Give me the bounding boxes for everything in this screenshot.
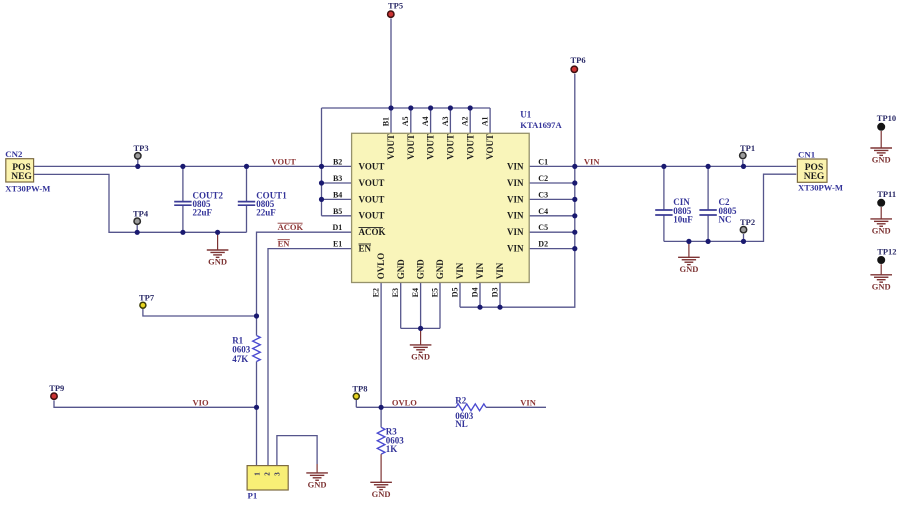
wire U1 top pin stub A1	[489, 108, 491, 133]
wire R1 bottom to P1 pin1 (VIO)	[256, 362, 258, 466]
junction GND rail	[215, 230, 220, 235]
svg-text:KTA1697A: KTA1697A	[520, 120, 562, 130]
wire U1.D3 stub	[499, 283, 501, 308]
junction TP2	[741, 239, 746, 244]
testpoint TP10	[877, 113, 896, 130]
svg-text:TP8: TP8	[352, 384, 367, 394]
ground (TP11)	[870, 207, 892, 236]
svg-text:E4: E4	[411, 288, 420, 297]
junction TP4	[135, 230, 140, 235]
wire ACOK net U1.D1 to R1 top	[257, 232, 352, 335]
svg-text:C2: C2	[538, 174, 548, 183]
svg-text:VOUT: VOUT	[359, 161, 385, 171]
wire TP6 stem + right VIN vertical bus	[460, 74, 575, 307]
svg-text:A5: A5	[401, 117, 410, 127]
svg-text:C1: C1	[538, 157, 548, 166]
junction OVLO/R3	[379, 405, 384, 410]
svg-text:GND: GND	[872, 281, 891, 291]
wire TP4 stem	[136, 225, 138, 232]
svg-text:TP10: TP10	[877, 113, 896, 123]
svg-text:TP9: TP9	[49, 383, 64, 393]
svg-text:P1: P1	[248, 491, 258, 501]
resistor R1	[253, 336, 261, 362]
junction CIN top	[661, 164, 666, 169]
svg-text:OVLO: OVLO	[376, 253, 386, 280]
svg-text:VIN: VIN	[475, 262, 485, 279]
junction A3	[448, 105, 453, 110]
svg-text:NC: NC	[719, 214, 732, 224]
wire U1 right pin stub C4	[529, 215, 575, 217]
svg-text:R2: R2	[455, 396, 466, 406]
svg-text:CN2: CN2	[5, 149, 23, 159]
testpoint TP5	[388, 1, 404, 18]
wire U1 top pin stub A4	[430, 108, 432, 133]
wire U1.E2 to R3 (OVLO)	[380, 283, 382, 428]
svg-text:VOUT: VOUT	[465, 134, 475, 160]
junction A4	[428, 105, 433, 110]
capacitor CIN	[655, 166, 693, 241]
testpoint TP8	[352, 384, 367, 400]
svg-text:E3: E3	[391, 288, 400, 297]
svg-text:B4: B4	[333, 190, 342, 199]
junction C1/VIN	[572, 164, 577, 169]
resistor R2	[456, 404, 486, 411]
svg-text:E5: E5	[430, 288, 439, 297]
capacitor COUT2	[174, 166, 223, 232]
svg-text:TP2: TP2	[740, 217, 755, 227]
svg-text:2: 2	[263, 472, 271, 476]
wire TP1 stem	[742, 160, 744, 167]
junction B4	[319, 197, 324, 202]
junction B2/VOUT	[319, 164, 324, 169]
wire TP5 stem	[390, 19, 392, 109]
wire U1 right pin stub D2	[529, 248, 575, 250]
wire U1.B5 stub	[322, 215, 352, 217]
testpoint TP11	[877, 189, 896, 206]
svg-text:NEG: NEG	[11, 172, 32, 182]
wire TP7 to ACOK	[143, 309, 257, 316]
resistor R3	[377, 427, 385, 454]
ground (CIN rail)	[678, 241, 700, 274]
wire EN net U1.E1 to P1 pin2	[268, 249, 352, 466]
wire U1.E4 stub	[420, 283, 422, 329]
svg-text:C5: C5	[538, 223, 548, 232]
wire VIN rail U1.C1 to CN1.POS	[529, 165, 796, 167]
svg-text:TP5: TP5	[388, 1, 403, 11]
svg-text:VIN: VIN	[507, 211, 524, 221]
junction C5	[572, 230, 577, 235]
svg-text:VOUT: VOUT	[446, 134, 456, 160]
svg-text:B5: B5	[333, 207, 342, 216]
junction COUT1 top	[244, 164, 249, 169]
testpoint TP1	[740, 143, 756, 159]
testpoint TP3	[134, 143, 149, 159]
wire U1.E3 stub	[400, 283, 402, 329]
svg-text:VIN: VIN	[507, 227, 524, 237]
ground (R3)	[370, 454, 392, 499]
junction CIN GND	[686, 239, 691, 244]
svg-text:A3: A3	[441, 117, 450, 127]
svg-text:XT30PW-M: XT30PW-M	[5, 183, 50, 193]
IC U1 KTA1697A body	[352, 133, 530, 282]
svg-text:VIN: VIN	[520, 397, 536, 407]
wire TP8 stem	[355, 400, 357, 407]
U1 left pin name VOUT (pin B4)	[359, 194, 385, 204]
svg-text:B1: B1	[381, 117, 390, 126]
svg-text:TP6: TP6	[571, 55, 586, 65]
svg-text:VOUT: VOUT	[359, 178, 385, 188]
wire U1.B3 stub	[322, 182, 352, 184]
wire U1 right pin stub C5	[529, 231, 575, 233]
wire TP9 VIO rail	[54, 400, 257, 407]
svg-text:U1: U1	[520, 110, 531, 120]
testpoint TP6	[571, 55, 586, 72]
R2 labels	[455, 396, 474, 429]
svg-text:GND: GND	[679, 264, 698, 274]
wire U1 right pin stub C2	[529, 182, 575, 184]
U1 left pin name ACOK (pin D1)	[359, 227, 386, 237]
svg-text:XT30PW-M: XT30PW-M	[798, 183, 843, 193]
svg-text:VIN: VIN	[507, 194, 524, 204]
svg-text:1: 1	[253, 472, 261, 476]
wire CN2.NEG to GND rail	[34, 174, 247, 232]
svg-text:GND: GND	[872, 155, 891, 165]
svg-text:ACOK: ACOK	[359, 227, 386, 237]
R1 labels	[232, 336, 251, 364]
junction D2	[572, 246, 577, 251]
svg-text:GND: GND	[435, 259, 445, 280]
ground (TP10)	[870, 131, 892, 165]
svg-text:GND: GND	[872, 226, 891, 236]
U1 left pin name VOUT (pin B2)	[359, 161, 385, 171]
svg-text:C3: C3	[538, 190, 548, 199]
svg-text:D1: D1	[333, 223, 343, 232]
junction VIO/R1	[254, 405, 259, 410]
wire OVLO net TP8 to R2	[356, 406, 456, 408]
svg-text:D4: D4	[470, 288, 479, 298]
testpoint TP12	[877, 246, 896, 263]
wire E3-E5 GND rail	[401, 327, 440, 329]
svg-text:VOUT: VOUT	[406, 134, 416, 160]
junction D4	[477, 305, 482, 310]
svg-text:GND: GND	[372, 489, 391, 499]
svg-text:TP12: TP12	[877, 246, 896, 256]
svg-text:CN1: CN1	[798, 149, 815, 159]
svg-text:OVLO: OVLO	[392, 397, 417, 407]
svg-text:VOUT: VOUT	[359, 194, 385, 204]
capacitor COUT1	[238, 166, 287, 232]
wire U1.B4 stub	[322, 198, 352, 200]
svg-text:10uF: 10uF	[673, 214, 693, 224]
svg-text:D2: D2	[538, 240, 548, 249]
junction A5	[408, 105, 413, 110]
wire U1.E5 stub	[439, 283, 441, 329]
junction COUT2 top	[180, 164, 185, 169]
wire TP2 stem	[743, 234, 745, 241]
junction E4/GND	[418, 326, 423, 331]
svg-text:47K: 47K	[232, 354, 248, 364]
svg-text:3: 3	[274, 472, 282, 476]
junction C2cap bottom	[706, 239, 711, 244]
svg-text:TP1: TP1	[740, 143, 755, 153]
svg-text:VIN: VIN	[455, 262, 465, 279]
svg-text:VOUT: VOUT	[426, 134, 436, 160]
junction B3	[319, 180, 324, 185]
svg-text:TP4: TP4	[133, 209, 149, 219]
ground (TP12)	[870, 264, 892, 291]
testpoint TP2	[740, 217, 755, 233]
svg-text:A1: A1	[481, 117, 490, 127]
testpoint TP7	[139, 293, 155, 309]
svg-text:VIN: VIN	[584, 156, 600, 166]
svg-text:VOUT: VOUT	[386, 134, 396, 160]
junction C4	[572, 213, 577, 218]
connector CN1 body	[797, 159, 827, 182]
svg-text:E1: E1	[333, 240, 342, 249]
junction C2	[572, 180, 577, 185]
wire U1.D4 stub	[479, 283, 481, 308]
wire U1 top pin stub B1	[390, 108, 392, 133]
svg-text:VIN: VIN	[507, 178, 524, 188]
svg-text:VIN: VIN	[495, 262, 505, 279]
wire R2 to VIN label	[486, 406, 546, 408]
svg-text:NL: NL	[455, 419, 468, 429]
svg-text:EN: EN	[359, 244, 372, 254]
svg-text:C4: C4	[538, 207, 548, 216]
junction C3	[572, 197, 577, 202]
U1 left pin name EN (pin E1)	[359, 244, 372, 254]
svg-text:A4: A4	[421, 117, 430, 127]
wire U1 right pin stub C3	[529, 198, 575, 200]
wire B-pins vertical bus	[321, 108, 323, 216]
ground (COUT rail)	[207, 232, 229, 266]
svg-text:GND: GND	[208, 257, 227, 267]
net label ACOK	[278, 222, 304, 232]
svg-text:NEG: NEG	[804, 172, 825, 182]
svg-text:22uF: 22uF	[256, 207, 276, 217]
junction TP7/ACOK	[254, 313, 259, 318]
U1 left pin name VOUT (pin B5)	[359, 211, 385, 221]
svg-text:GND: GND	[416, 259, 426, 280]
wire U1 top pin stub A5	[410, 108, 412, 133]
junction C2cap top	[706, 164, 711, 169]
wire TP3 stem	[137, 160, 139, 167]
svg-text:D3: D3	[490, 288, 499, 298]
capacitor C2	[699, 166, 737, 241]
svg-text:GND: GND	[411, 352, 430, 362]
svg-text:VIN: VIN	[507, 161, 524, 171]
net label EN	[278, 239, 291, 249]
svg-text:A2: A2	[461, 117, 470, 127]
U1 left pin name VOUT (pin B3)	[359, 178, 385, 188]
svg-text:TP7: TP7	[139, 293, 155, 303]
svg-text:TP3: TP3	[134, 143, 149, 153]
wire VOUT rail CN2.POS to U1.B2	[34, 165, 352, 167]
testpoint TP4	[133, 209, 149, 225]
wire U1 top pin stub A3	[449, 108, 451, 133]
svg-text:VOUT: VOUT	[485, 134, 495, 160]
svg-text:VIN: VIN	[507, 244, 524, 254]
junction D3	[497, 305, 502, 310]
svg-text:1K: 1K	[386, 444, 398, 454]
wire top VOUT rail	[322, 107, 491, 109]
svg-text:VIO: VIO	[193, 397, 209, 407]
svg-text:GND: GND	[396, 259, 406, 280]
svg-text:E2: E2	[372, 288, 381, 297]
svg-text:B2: B2	[333, 157, 342, 166]
junction B1/TP5	[388, 105, 393, 110]
junction TP1	[741, 164, 746, 169]
junction A2	[468, 105, 473, 110]
svg-text:VOUT: VOUT	[272, 156, 297, 166]
svg-text:D5: D5	[450, 288, 459, 298]
svg-text:22uF: 22uF	[193, 207, 213, 217]
testpoint TP9	[49, 383, 64, 399]
wire P1 pin3 to GND	[277, 436, 317, 466]
svg-text:VOUT: VOUT	[359, 211, 385, 221]
wire U1.D5 stub	[459, 283, 461, 308]
svg-text:B3: B3	[333, 174, 342, 183]
wire CN1.NEG to cap bottom rail	[664, 174, 796, 241]
junction TP3	[135, 164, 140, 169]
connector P1 body	[247, 466, 288, 490]
junction COUT2 bottom	[180, 230, 185, 235]
R3 labels	[386, 427, 405, 455]
ground (E3-E5)	[410, 328, 432, 361]
ground (P1)	[306, 464, 328, 490]
svg-text:TP11: TP11	[877, 189, 896, 199]
wire U1 top pin stub A2	[469, 108, 471, 133]
svg-text:GND: GND	[308, 480, 327, 490]
connector CN2 body	[6, 159, 34, 182]
